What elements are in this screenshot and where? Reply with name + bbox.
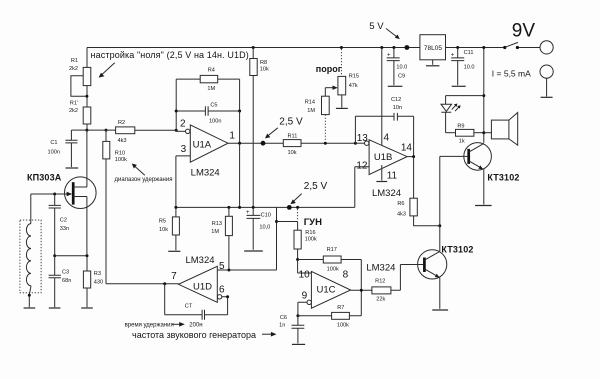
- svg-text:2k2: 2k2: [69, 108, 78, 114]
- svg-text:2: 2: [180, 119, 186, 130]
- svg-text:+: +: [246, 210, 250, 216]
- label 2,5 V first: [279, 117, 303, 128]
- svg-text:430: 430: [94, 280, 103, 286]
- wire source node: [55, 254, 89, 257]
- ground R15: [336, 95, 348, 109]
- svg-text:U1B: U1B: [374, 152, 392, 163]
- ground C3: [49, 307, 61, 309]
- ground C1: [66, 167, 79, 169]
- capacitor C9 10.0: [387, 48, 408, 86]
- junction R16 bottom: [296, 258, 299, 261]
- svg-text:22k: 22k: [376, 296, 385, 302]
- junction R16 tap: [275, 220, 278, 223]
- inductor L1: [26, 194, 31, 297]
- svg-text:R12: R12: [375, 279, 385, 285]
- svg-text:78L05: 78L05: [424, 45, 442, 52]
- capacitor C12 10n feedback: [355, 97, 413, 156]
- svg-text:1k: 1k: [459, 138, 465, 144]
- label LM324 U1C: [366, 262, 395, 273]
- svg-text:10k: 10k: [159, 227, 168, 233]
- wire pin10 drop: [298, 260, 312, 274]
- svg-text:R17: R17: [327, 247, 337, 253]
- junction C9 tap: [392, 46, 395, 49]
- junction pin2 node: [175, 129, 178, 132]
- svg-text:R2: R2: [118, 120, 125, 126]
- label ГУН: [304, 217, 322, 228]
- wire 2.5V rail: [176, 206, 355, 208]
- svg-text:порог: порог: [316, 64, 342, 74]
- svg-text:R4: R4: [208, 67, 215, 73]
- svg-text:LM324: LM324: [191, 167, 220, 178]
- svg-text:4k3: 4k3: [118, 138, 127, 144]
- capacitor C1 100n: [48, 130, 78, 167]
- svg-text:I = 5,5 mA: I = 5,5 mA: [492, 68, 531, 78]
- svg-text:CT: CT: [185, 303, 193, 309]
- junction R8 top: [252, 46, 255, 49]
- wiper R15 to R14: [325, 86, 337, 97]
- transistor VT1 KP303A: [55, 130, 96, 256]
- svg-text:C11: C11: [464, 50, 474, 56]
- svg-text:100k: 100k: [115, 157, 127, 163]
- svg-text:C3: C3: [62, 270, 69, 276]
- transistor VT2 KT3102: [440, 143, 492, 205]
- junction rail U1A drop: [238, 206, 241, 209]
- label диапазон удержания: [115, 177, 173, 183]
- label частота звукового генератора: [132, 330, 256, 340]
- resistor R13 1M: [211, 207, 232, 270]
- svg-text:настройка "ноля" (2,5 V на 14н: настройка "ноля" (2,5 V на 14н. U1D): [91, 50, 249, 60]
- wire 9V drop to speaker node: [482, 46, 485, 143]
- sensor coil L1 dashed box: [20, 220, 41, 293]
- wire R11 to pin13: [301, 142, 355, 144]
- svg-text:5: 5: [219, 261, 225, 272]
- node 2.5V big dot: [261, 141, 266, 146]
- svg-text:R8: R8: [260, 60, 267, 66]
- label I = 5,5 mA: [492, 68, 531, 78]
- svg-text:47k: 47k: [349, 83, 358, 89]
- svg-text:R16: R16: [305, 230, 315, 236]
- svg-text:R3: R3: [94, 271, 101, 277]
- wire U1A output: [228, 142, 283, 144]
- svg-text:R9: R9: [457, 124, 464, 130]
- svg-text:10n: 10n: [393, 105, 402, 111]
- svg-text:100k: 100k: [327, 266, 339, 272]
- junction R1-R1': [85, 95, 88, 98]
- arrow to 200n: [172, 322, 184, 327]
- wire pin5 net: [217, 269, 276, 272]
- switch SA1: [503, 42, 519, 49]
- svg-text:1M: 1M: [207, 86, 215, 92]
- junction C5 left: [175, 110, 178, 113]
- svg-text:12: 12: [356, 160, 368, 171]
- svg-text:7: 7: [171, 271, 177, 282]
- resistor R1' 2k2: [69, 101, 91, 131]
- capacitor C3 68n: [49, 256, 72, 308]
- label 2,5 V second: [304, 181, 328, 192]
- wire 5V top rail: [87, 47, 540, 49]
- svg-text:14: 14: [401, 143, 413, 154]
- svg-text:LM324: LM324: [185, 255, 214, 266]
- svg-text:C12: C12: [391, 97, 401, 103]
- resistor R6 4k3: [397, 157, 439, 226]
- svg-text:C5: C5: [210, 103, 217, 109]
- svg-text:КТ3102: КТ3102: [487, 172, 519, 182]
- wire U1B output: [407, 155, 415, 158]
- junction speaker node: [482, 131, 485, 134]
- battery terminal minus: [540, 65, 553, 78]
- svg-text:2k2: 2k2: [69, 66, 78, 72]
- svg-text:100n: 100n: [48, 150, 60, 156]
- svg-text:8: 8: [343, 270, 349, 281]
- capacitor CT 200n: [165, 284, 228, 320]
- speaker BA1: [484, 113, 518, 146]
- svg-text:1: 1: [229, 131, 235, 142]
- arrow to R10: [132, 164, 145, 176]
- svg-text:LM324: LM324: [372, 188, 401, 199]
- wire pin9 net: [296, 302, 307, 317]
- ground C9: [388, 85, 403, 87]
- svg-text:U1A: U1A: [193, 139, 212, 150]
- svg-text:R1': R1': [70, 101, 78, 107]
- ground 78L05: [426, 60, 439, 66]
- resistor R4 1M feedback: [176, 67, 239, 111]
- svg-text:200н: 200н: [189, 322, 202, 328]
- svg-text:время удержания: время удержания: [125, 322, 174, 328]
- wire pin2 feedback riser: [175, 111, 177, 131]
- svg-text:4: 4: [384, 132, 390, 143]
- label порог: [316, 64, 342, 74]
- svg-text:4k3: 4k3: [397, 211, 406, 217]
- wire R14 dotted drop: [324, 115, 326, 142]
- svg-text:R1: R1: [71, 58, 78, 64]
- arrow to 2.5V node second: [290, 194, 301, 205]
- wire R16 feed riser: [276, 207, 278, 270]
- op-amp U1A: [176, 48, 382, 163]
- label 9V: [512, 21, 536, 42]
- arrow to C6: [262, 332, 277, 337]
- capacitor C2 33n: [49, 194, 70, 256]
- junction LED top tap: [482, 94, 485, 97]
- junction R14 on pin13 wire: [324, 142, 327, 145]
- svg-text:33n: 33n: [60, 226, 69, 232]
- svg-text:10.0: 10.0: [396, 64, 407, 70]
- svg-text:100n: 100n: [209, 118, 221, 124]
- ground L1: [24, 295, 36, 308]
- junction pin13 node: [354, 142, 357, 145]
- junction U1B pin4 tap: [380, 46, 383, 49]
- ground battery: [541, 78, 553, 97]
- junction drain node: [85, 129, 88, 132]
- ground R5: [168, 250, 180, 252]
- svg-text:R13: R13: [212, 221, 222, 227]
- svg-text:U1C: U1C: [317, 285, 336, 296]
- transistor VT1 KP303A label: [27, 172, 62, 182]
- svg-text:68n: 68n: [62, 278, 71, 284]
- junction R15 dotted tap: [340, 46, 343, 49]
- svg-text:R7: R7: [337, 305, 344, 311]
- svg-text:13: 13: [357, 133, 369, 144]
- svg-text:LM324: LM324: [366, 262, 395, 273]
- wire U1C output: [351, 289, 372, 292]
- trimmer R15 47k: [338, 49, 359, 95]
- svg-text:100k: 100k: [337, 323, 349, 329]
- arrow to 2.5V node: [265, 128, 278, 139]
- label время удержания: [125, 322, 174, 328]
- svg-text:+: +: [387, 52, 391, 58]
- junction base node KT2: [438, 224, 441, 227]
- resistor R16 100k: [294, 209, 317, 260]
- svg-text:C6: C6: [280, 315, 287, 321]
- capacitor C10 10,0: [246, 207, 271, 249]
- label KT3102 VT2: [487, 172, 519, 182]
- ground pin11: [376, 165, 387, 182]
- wire drain node to C1: [71, 129, 87, 131]
- svg-text:2,5 V: 2,5 V: [304, 181, 328, 192]
- capacitor C5 100n feedback: [176, 103, 239, 125]
- label KT3102 VT3: [441, 245, 473, 255]
- node 2.5V big dot second: [287, 205, 292, 210]
- capacitor C11 10.0: [451, 46, 475, 85]
- svg-text:10: 10: [299, 270, 311, 281]
- svg-text:10k: 10k: [287, 150, 296, 156]
- wire pin12 to rail: [355, 167, 369, 208]
- wire pin6 stub: [222, 295, 229, 315]
- label 200n value: [189, 322, 202, 328]
- label настройка ноля: [91, 50, 249, 60]
- junction rail R5: [174, 206, 177, 209]
- label 5 V: [369, 21, 384, 32]
- resistor R3 430: [83, 256, 103, 308]
- svg-text:R5: R5: [159, 219, 166, 225]
- svg-text:1n: 1n: [279, 322, 285, 328]
- svg-text:100k: 100k: [305, 236, 317, 242]
- LED arrows: [452, 104, 461, 112]
- junction C2 bottom: [53, 254, 56, 257]
- resistor R12 22k: [372, 265, 401, 303]
- resistor R14 1M: [305, 96, 329, 114]
- svg-text:6: 6: [219, 285, 225, 296]
- wire output to rail drop: [239, 143, 241, 207]
- svg-text:11: 11: [387, 170, 398, 181]
- svg-text:R6: R6: [397, 201, 404, 207]
- transistor VT3 KT3102: [400, 226, 446, 309]
- resistor R7 100k feedback: [298, 290, 361, 328]
- svg-text:R15: R15: [349, 73, 359, 79]
- junction rail R16: [296, 206, 299, 209]
- ground VT3 emitter: [432, 309, 448, 311]
- node 5V big dot: [405, 45, 410, 50]
- svg-text:частота звукового генератора: частота звукового генератора: [132, 330, 256, 340]
- ground C6: [292, 343, 305, 345]
- svg-text:9: 9: [302, 291, 308, 302]
- label LM324 U1D: [185, 255, 214, 266]
- op-amp U1D: [171, 261, 225, 302]
- wire pin3 to rail: [176, 156, 190, 208]
- wire R16 tap horizontal: [277, 221, 298, 223]
- svg-text:10.0: 10.0: [464, 64, 475, 70]
- svg-text:10k: 10k: [260, 67, 269, 73]
- resistor R11 10k: [283, 134, 301, 156]
- ground R3: [81, 307, 93, 309]
- wire base node riser: [439, 156, 441, 225]
- arrow to 5V node: [386, 29, 400, 40]
- svg-text:КП303А: КП303А: [27, 172, 62, 182]
- junction output feedback: [238, 142, 241, 145]
- svg-text:ГУН: ГУН: [304, 217, 322, 228]
- op-amp U1B: [355, 132, 412, 181]
- svg-text:R14: R14: [305, 100, 315, 106]
- op-amp U1C: [299, 270, 351, 309]
- svg-text:U1D: U1D: [193, 281, 212, 292]
- svg-text:1M: 1M: [307, 108, 315, 114]
- svg-text:3: 3: [181, 144, 187, 155]
- svg-text:5 V: 5 V: [369, 21, 384, 32]
- resistor R10 100k: [103, 129, 127, 284]
- arrow to R1: [99, 63, 115, 78]
- svg-text:C10: C10: [261, 213, 271, 219]
- svg-text:C1: C1: [50, 140, 57, 146]
- svg-text:диапазон удержания: диапазон удержания: [115, 177, 173, 183]
- resistor R2 4k3: [87, 120, 176, 144]
- svg-text:КТ3102: КТ3102: [441, 245, 473, 255]
- junction C5 right: [238, 110, 241, 113]
- svg-text:10,0: 10,0: [259, 225, 270, 231]
- ground C10: [244, 250, 263, 252]
- regulator U2 78L05: [420, 35, 446, 60]
- svg-text:R10: R10: [115, 151, 125, 157]
- wire gate to coil: [31, 193, 56, 196]
- battery terminal plus: [540, 41, 553, 54]
- junction rail C10: [252, 206, 255, 209]
- wire feedback to output: [239, 111, 241, 143]
- junction rail R13: [227, 206, 230, 209]
- ground C11: [452, 85, 466, 87]
- label LM324 U1B: [372, 188, 401, 199]
- LED VD1: [441, 96, 452, 133]
- resistor R9 1k: [446, 124, 484, 145]
- svg-text:C2: C2: [60, 218, 67, 224]
- resistor R1 2k2 trimmer: [69, 48, 91, 108]
- resistor R17 100k feedback: [298, 247, 362, 290]
- wire LED branch top: [446, 95, 484, 97]
- resistor R8 10k: [250, 48, 269, 208]
- wire U1D output: [106, 282, 179, 285]
- svg-text:1M: 1M: [211, 229, 219, 235]
- label LM324 U1A: [191, 167, 220, 178]
- svg-text:+: +: [451, 52, 455, 58]
- ground VT2 emitter: [475, 205, 492, 207]
- svg-text:9V: 9V: [512, 21, 536, 42]
- svg-text:2,5 V: 2,5 V: [279, 117, 303, 128]
- svg-text:C9: C9: [398, 74, 405, 80]
- resistor R5 10k: [159, 207, 180, 250]
- capacitor C6 1n: [279, 315, 304, 344]
- svg-text:R11: R11: [287, 134, 297, 140]
